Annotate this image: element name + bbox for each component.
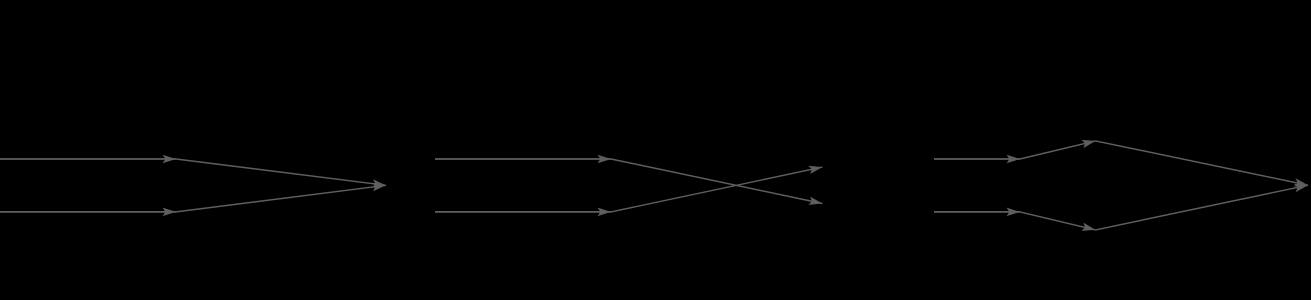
arrowhead group1 focus from top ray bbox=[372, 179, 386, 189]
group 3 ray A converging diagonal bbox=[1096, 141, 1309, 185]
group 2 ray B crossing diagonal bbox=[611, 167, 822, 212]
arrowhead group3 apex bbox=[1081, 137, 1096, 148]
arrowhead group3 bottom mid bbox=[1007, 208, 1020, 217]
group 3 ray A horizontal bbox=[934, 158, 1020, 160]
arrowhead group2 top mid bbox=[598, 155, 611, 164]
group 3 ray A diverging diagonal bbox=[1020, 141, 1096, 159]
group 1 ray B horizontal bbox=[0, 211, 176, 213]
group 2 ray B horizontal bbox=[435, 211, 611, 213]
group 1 ray B converging diagonal bbox=[176, 185, 386, 212]
arrowhead group3 focus from top ray bbox=[1294, 178, 1309, 189]
group 2 ray A crossing diagonal bbox=[611, 159, 822, 204]
group 3 ray B converging diagonal bbox=[1096, 185, 1309, 230]
arrowhead group1 top mid bbox=[163, 155, 176, 164]
arrowhead group3 trough bbox=[1081, 223, 1096, 234]
arrowhead group2 upper end bbox=[808, 163, 823, 174]
arrowhead group2 bottom mid bbox=[598, 208, 611, 217]
group 3 ray B diverging diagonal bbox=[1020, 212, 1096, 230]
group 2 ray A horizontal bbox=[435, 158, 611, 160]
arrowhead group3 top mid bbox=[1007, 155, 1020, 164]
arrowhead group1 focus from bottom ray bbox=[372, 181, 386, 191]
arrowhead group3 focus from bottom ray bbox=[1294, 181, 1309, 192]
group 3 ray B horizontal bbox=[934, 211, 1020, 213]
group 1 ray A converging diagonal bbox=[176, 159, 386, 185]
group 1 ray A horizontal bbox=[0, 158, 176, 160]
arrowhead group2 lower end bbox=[808, 197, 823, 208]
arrowhead group1 bottom mid bbox=[163, 208, 176, 217]
